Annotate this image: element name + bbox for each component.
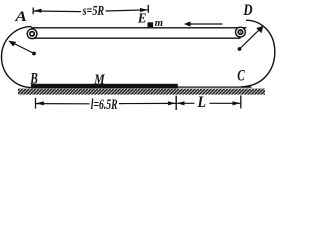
dimension s=5R : left arrowhead <box>34 9 42 13</box>
svg-text:C: C <box>237 67 245 84</box>
svg-text:E: E <box>137 12 147 27</box>
svg-text:A: A <box>14 9 27 25</box>
left arc centre dot <box>32 52 36 56</box>
ground hatching <box>18 89 265 95</box>
svg-text:l=6.5R: l=6.5R <box>91 97 118 113</box>
svg-text:L: L <box>197 94 207 111</box>
dimension s=5R : left tick <box>32 8 34 15</box>
belt bottom line <box>32 37 241 39</box>
ground line right of plank <box>175 86 252 88</box>
dimension l=6.5R : right arrowhead <box>168 101 176 105</box>
pulley left hub <box>30 32 34 36</box>
dimension L : line <box>177 102 241 104</box>
dimension l=6.5R : left tick <box>35 98 37 109</box>
svg-text:D: D <box>243 2 253 19</box>
belt direction arrow (leftwards) <box>184 21 223 26</box>
svg-text:s=5R: s=5R <box>82 4 104 19</box>
right arc centre dot <box>238 47 242 51</box>
left loop arc A-B <box>2 26 33 87</box>
dimension L : right arrowhead <box>233 101 241 105</box>
dimension L : left arrowhead <box>177 101 185 105</box>
dimension s=5R : right tick <box>147 5 149 13</box>
right loop arc D-C <box>241 20 275 87</box>
pulley left (outer wheel) <box>27 29 37 39</box>
dimension L : right tick <box>240 95 242 108</box>
dimension l=6.5R : middle tick <box>175 96 177 110</box>
pulley right hub <box>238 30 242 34</box>
left radius arrow R <box>8 41 34 54</box>
belt top line <box>31 27 247 29</box>
block m on belt <box>148 22 154 27</box>
dimension s=5R : right arrowhead <box>140 8 148 12</box>
dimension l=6.5R : line <box>36 102 177 104</box>
plank M on ground <box>31 84 178 89</box>
dimension s=5R : line <box>33 10 148 12</box>
pulley right hub dot <box>240 31 241 32</box>
right radius arrow R <box>240 26 264 49</box>
svg-text:m: m <box>155 17 164 29</box>
pulley right (outer wheel) <box>236 27 246 37</box>
dimension l=6.5R : left arrowhead <box>36 101 44 105</box>
